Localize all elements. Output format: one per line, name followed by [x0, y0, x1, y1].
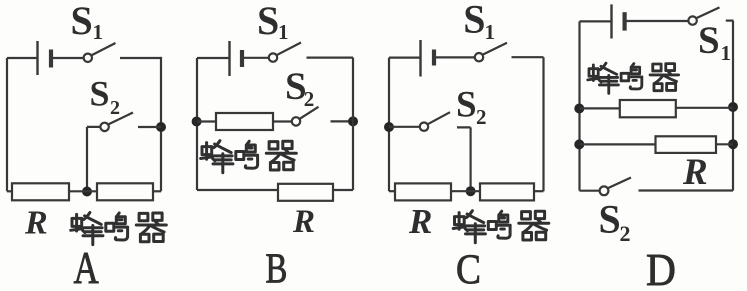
switch S1 (C) circle	[475, 53, 483, 61]
wire C battery to S1	[434, 56, 475, 58]
switch S2 (B) circle	[292, 117, 300, 125]
label buzzer (A)	[71, 213, 167, 245]
wire D R branch left	[580, 143, 656, 145]
switch S2 (C) blade	[428, 112, 451, 124]
svg-text:S: S	[456, 84, 477, 125]
wire C left vertical	[388, 58, 390, 192]
label buzzer (D)	[588, 63, 679, 93]
svg-text:S: S	[71, 0, 93, 43]
svg-text:R: R	[24, 205, 48, 242]
node C left junction	[384, 122, 394, 132]
wire A bottom left	[7, 190, 12, 192]
label buzzer (B)	[201, 141, 297, 173]
battery B short plate	[240, 50, 244, 67]
battery C long plate	[419, 40, 421, 77]
wire D S2 fixed contact	[639, 189, 734, 191]
wire D R branch right	[716, 143, 733, 145]
wire C right vertical	[542, 57, 544, 191]
wire C S2 left lead	[389, 126, 420, 128]
switch S2 (A) circle	[100, 123, 108, 131]
svg-text:2: 2	[110, 97, 120, 119]
svg-text:S: S	[463, 0, 485, 42]
svg-text:R: R	[408, 202, 432, 241]
switch S1 (C) blade	[483, 43, 508, 55]
wire C S1 fixed contact	[512, 56, 544, 58]
buzzer (C)	[480, 183, 534, 200]
buzzer (A)	[97, 183, 153, 200]
resistor R (B)	[278, 184, 333, 201]
node A bottom junction	[82, 187, 92, 197]
wire D right vertical	[732, 21, 734, 191]
node D left junction 2	[574, 139, 584, 149]
svg-text:B: B	[266, 246, 288, 286]
battery D long plate	[610, 4, 612, 38]
switch S1 (D) circle	[688, 16, 696, 24]
wire A S2 left lead	[87, 127, 100, 188]
wire B battery to S1	[242, 57, 269, 59]
resistor R (C)	[395, 183, 451, 200]
wire B buzzer to S2	[273, 120, 292, 122]
switch S1 (B) circle	[269, 53, 277, 61]
wire C between R and buzzer	[451, 190, 480, 192]
node C bottom junction	[466, 186, 476, 196]
switch S2 (A) blade	[108, 113, 133, 125]
battery D short plate	[622, 12, 626, 30]
resistor R (A)	[12, 183, 69, 200]
svg-text:2: 2	[476, 105, 487, 129]
battery A short plate	[49, 50, 53, 68]
battery A long plate	[36, 41, 38, 75]
wire D S1 fixed contact	[726, 20, 734, 22]
label option C	[456, 247, 481, 291]
wire B bottom left	[197, 189, 278, 191]
svg-text:A: A	[74, 242, 100, 286]
switch S2 (C) circle	[420, 123, 428, 131]
label buzzer (C)	[453, 211, 549, 243]
svg-text:1: 1	[485, 20, 496, 44]
wire D left vertical	[578, 21, 580, 190]
wire A left vertical	[6, 58, 8, 191]
wire B left to buzzer	[197, 120, 216, 122]
svg-text:R: R	[682, 152, 708, 193]
wire A bottom right	[153, 190, 161, 192]
svg-text:R: R	[292, 204, 315, 240]
wire B top-left	[197, 57, 229, 59]
switch S1 (B) blade	[277, 43, 302, 56]
wire A top-left	[7, 57, 37, 59]
switch S2 (D) blade	[608, 178, 631, 189]
wire A between R and buzzer	[69, 190, 97, 192]
switch S1 (A) blade	[91, 43, 115, 55]
label option D	[646, 245, 676, 291]
switch S2 (D) circle	[600, 186, 609, 195]
resistor R (D)	[656, 136, 717, 153]
wire D buzzer branch right	[676, 107, 733, 109]
svg-text:C: C	[456, 247, 481, 286]
node B left junction	[192, 117, 202, 127]
svg-text:S: S	[599, 197, 621, 242]
wire B bottom right	[333, 189, 353, 191]
node D left junction 1	[574, 104, 584, 114]
label option A	[74, 242, 100, 291]
svg-text:S: S	[90, 74, 110, 114]
switch S2 (B) blade	[300, 107, 319, 119]
svg-text:2: 2	[304, 87, 315, 111]
buzzer (B)	[216, 113, 273, 130]
label option B	[266, 246, 288, 291]
node B right junction	[348, 116, 358, 126]
wire C bottom right	[534, 190, 544, 192]
svg-text:2: 2	[620, 221, 631, 246]
svg-text:S: S	[698, 19, 720, 62]
wire A right vertical	[160, 57, 162, 191]
battery B long plate	[228, 41, 230, 76]
svg-text:1: 1	[278, 20, 289, 44]
wire D top-left	[580, 20, 612, 22]
wire A S2 fixed contact	[138, 126, 161, 128]
wire B right vertical	[352, 58, 354, 190]
wire B S2 fixed contact	[331, 120, 354, 122]
wire C top-left	[389, 56, 420, 58]
wire C S2 fixed bracket	[457, 127, 471, 191]
wire D buzzer branch left	[580, 107, 620, 109]
node D right junction 1	[728, 102, 738, 112]
switch S1 (A) circle	[84, 54, 92, 62]
wire A S1 fixed contact	[120, 57, 161, 59]
svg-text:1: 1	[721, 41, 732, 65]
svg-text:S: S	[257, 0, 279, 43]
wire C bottom left	[389, 190, 395, 192]
buzzer (D)	[620, 100, 676, 117]
wire B S1 fixed contact	[307, 56, 354, 58]
battery C short plate	[432, 50, 436, 66]
svg-text:1: 1	[93, 20, 104, 44]
wire A battery to S1	[51, 57, 84, 59]
node A right junction	[156, 122, 166, 132]
wire D bottom left	[580, 190, 600, 192]
svg-text:D: D	[646, 245, 676, 286]
wire B left vertical	[196, 58, 198, 190]
node D right junction 2	[728, 139, 738, 149]
switch S1 (D) blade	[696, 7, 719, 18]
wire D battery to S1	[625, 20, 689, 22]
